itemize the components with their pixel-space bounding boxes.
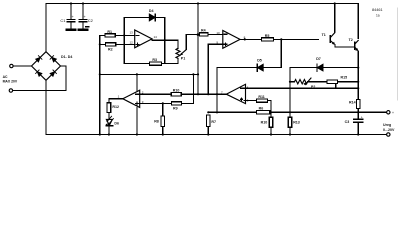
svg-text:0...20V: 0...20V [383,128,395,132]
svg-text:Ureg: Ureg [383,123,391,127]
AC input terminal upper [10,64,13,67]
wire row A IC1d out to IC1c top input [140,93,227,95]
diode D5 [217,58,281,71]
svg-text:12: 12 [130,41,134,45]
resistor R12 [107,103,119,119]
op-amp IC1c [118,90,144,107]
node dot x198 [197,73,199,75]
wire AC lower to bridge right [13,66,66,91]
svg-text:R8: R8 [154,120,159,124]
transistor T2 [349,38,359,51]
faint page edge right [397,8,399,100]
stray print mark [86,26,89,28]
wire IC1c power stub bottom [136,107,138,134]
svg-text:C3: C3 [345,120,350,124]
svg-text:R10: R10 [261,120,268,124]
svg-text:T2: T2 [349,38,353,42]
potentiometer P1 [176,35,186,64]
svg-text:13: 13 [130,31,134,35]
bridge rectifier D1-D4 [32,52,73,81]
resistor R4 [200,29,223,37]
svg-text:1a: 1a [376,14,380,18]
wire IC1a output to P1 top [152,40,178,48]
resistor R11 [244,95,271,113]
node dot P2 row [289,81,291,83]
svg-text:P1: P1 [181,57,185,61]
svg-text:R10: R10 [173,88,180,92]
resistor R13 vertical [288,117,300,134]
wire bottom rail [46,134,387,136]
node dot x136.9 [136,73,138,75]
svg-text:14: 14 [154,35,158,39]
svg-text:C2: C2 [88,18,94,23]
node dot R2 junction [99,43,101,45]
resistor R6 [256,107,272,114]
node dots bottom rail [99,133,360,135]
op-amp IC1a [130,30,158,48]
svg-text:D7: D7 [316,57,321,61]
svg-text:T1: T1 [322,33,326,37]
node dot inv input [123,34,125,36]
diode D7 [290,57,358,71]
svg-text:R2: R2 [108,48,113,52]
wire supply line y74 [100,73,198,75]
wire IC1b output to T1 base [240,38,318,40]
wire T1 collector drop [334,4,336,33]
svg-text:84461: 84461 [372,8,383,12]
svg-text:R15: R15 [341,75,348,79]
svg-text:R12: R12 [112,105,119,109]
capacitor C1 [60,4,75,30]
wire IC1b noninv input path [208,44,223,94]
resistor R8 vertical [154,103,164,134]
resistor R3 [124,58,178,65]
wire T2 emitter down the output branch [357,51,359,112]
resistor R2 [100,43,135,52]
svg-text:+: + [361,116,363,120]
svg-text:+: + [72,15,74,19]
resistor R7 vertical [207,115,217,135]
node dot D5 leg [280,38,282,40]
svg-text:R11: R11 [258,95,264,99]
svg-text:D5: D5 [257,58,262,62]
svg-text:R7: R7 [211,120,216,124]
transistor T1 [322,33,335,47]
wire bridge minus down to bottom rail [45,80,47,134]
node dots top rail [70,2,336,4]
node dot at R15 [357,81,359,83]
diode D4 [124,9,165,21]
wire IC1c power stub top [136,74,138,90]
resistor R10 row A [171,88,181,96]
svg-text:R1: R1 [107,30,112,34]
output terminal plus [387,111,390,114]
svg-text:+: + [84,15,86,19]
wire top rail to R4 node drop x198 [197,4,199,95]
svg-text:R14: R14 [349,101,356,105]
potentiometer P2 [290,78,315,89]
capacitor C3 [345,112,363,134]
wire P1 wiper to R4 [186,34,196,36]
node dot at D7 [357,67,359,69]
svg-text:1: 1 [118,95,120,99]
wire row B IC1c bottom input [140,74,194,103]
svg-text:R13: R13 [293,120,300,124]
resistor R15 [308,75,359,83]
node dot x193 [192,73,194,75]
wire stub R15 right to input wire [335,82,337,89]
svg-text:D4: D4 [149,9,154,13]
wire bridge plus to top rail [45,4,47,52]
node R1R2 junction vertical x100 [99,35,101,134]
node dot output [357,111,359,113]
LED D6 [106,116,120,134]
svg-text:10: 10 [216,31,220,35]
svg-text:D1- D4: D1- D4 [61,55,72,59]
op-amp IC1d [221,84,249,103]
svg-text:C1: C1 [60,18,66,23]
node dot x198 bottom [197,93,199,95]
wire output sense row [208,111,386,113]
op-amp IC1b [223,31,246,49]
node dot [207,111,209,113]
svg-text:AC: AC [3,75,8,79]
svg-text:R9: R9 [173,106,178,110]
node dot x100 [99,73,101,75]
wire top supply rail [46,3,358,5]
svg-text:R3: R3 [152,58,157,62]
resistor R5 [262,34,274,41]
wire D5 corner down to IC1d out [216,68,218,113]
node dot R8 top [162,102,164,104]
svg-text:P2: P2 [311,85,315,89]
wire IC1a inverting feedback vertical [123,17,125,63]
node dot on IC1d out wire [216,93,218,95]
wire IC1c output to R12 [109,99,123,103]
wire T1 emitter to T2 base [335,46,354,48]
wire IC1d top input long wire [244,87,358,89]
resistor R14 [349,100,360,109]
node dot output [164,39,166,41]
wire D7 left leg vertical x290 [289,68,291,118]
resistor R10 vertical [261,112,273,134]
node dot at input wire [357,87,359,89]
wire IC1a output node vertical [164,17,166,63]
node dot sense row [289,111,291,113]
output terminal minus [387,133,390,136]
capacitor C2 [79,4,94,30]
svg-text:D6: D6 [114,122,119,126]
wire AC upper to bridge left [13,65,31,67]
wire D5 leg vertical [280,39,282,67]
node dot IC1b out [244,38,246,40]
svg-text:+: + [392,111,394,115]
resistor R9 row B [172,102,182,111]
resistor R1 [100,30,135,37]
node dot x208 [207,93,209,95]
AC input terminal lower [9,89,12,92]
svg-text:R5: R5 [265,34,270,38]
node loop at x198 [197,33,200,36]
svg-text:6: 6 [247,85,249,89]
wire T2 collector drop [357,4,359,39]
svg-text:R4: R4 [201,29,206,33]
svg-text:R6: R6 [259,107,264,111]
svg-text:MAX 20V: MAX 20V [3,80,18,84]
